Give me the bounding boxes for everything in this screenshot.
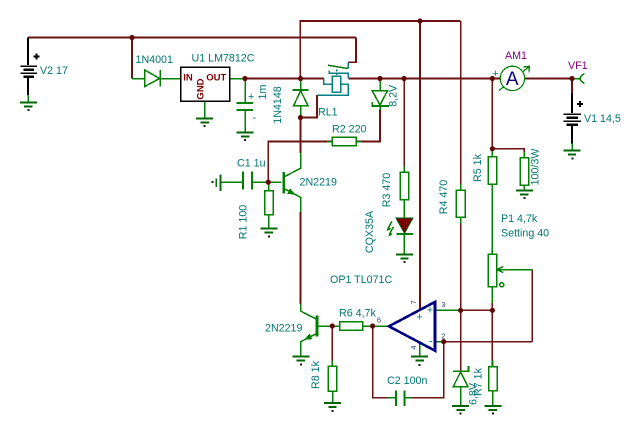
svg-text:R1 100: R1 100 — [238, 205, 250, 240]
svg-text:R7 1k: R7 1k — [473, 367, 485, 396]
svg-text:+: + — [416, 312, 422, 324]
svg-text:V2 17: V2 17 — [40, 65, 68, 77]
svg-text:CQX35A: CQX35A — [364, 210, 376, 253]
svg-text:3: 3 — [441, 300, 445, 309]
svg-text:Setting 40: Setting 40 — [501, 228, 549, 240]
svg-text:100/3W: 100/3W — [530, 148, 542, 186]
svg-text:6: 6 — [377, 316, 381, 325]
svg-text:RL1: RL1 — [318, 107, 338, 119]
svg-text:8,2V: 8,2V — [387, 84, 399, 107]
svg-text:R4 470: R4 470 — [438, 180, 450, 215]
svg-text:C1 1u: C1 1u — [237, 158, 266, 170]
svg-text:P1 4,7k: P1 4,7k — [501, 213, 538, 225]
svg-text:1N4148: 1N4148 — [272, 86, 284, 123]
svg-text:+: + — [427, 305, 433, 317]
svg-text:A: A — [506, 69, 519, 90]
svg-text:R8 1k: R8 1k — [310, 360, 322, 389]
svg-text:OP1 TL071C: OP1 TL071C — [330, 274, 392, 286]
svg-text:2: 2 — [441, 332, 445, 341]
svg-text:+: + — [248, 91, 254, 103]
svg-text:1m: 1m — [257, 84, 269, 99]
svg-text:IN: IN — [183, 73, 193, 84]
svg-text:+: + — [492, 68, 498, 80]
svg-text:U1 LM7812C: U1 LM7812C — [192, 53, 255, 65]
svg-text:V1 14,5: V1 14,5 — [584, 113, 621, 125]
svg-text:7: 7 — [409, 300, 418, 304]
svg-text:1N4001: 1N4001 — [136, 54, 173, 66]
svg-text:R3 470: R3 470 — [381, 173, 393, 208]
svg-text:R5 1k: R5 1k — [472, 153, 484, 182]
svg-text:-: - — [429, 336, 433, 348]
svg-text:-: - — [253, 112, 257, 124]
svg-text:2N2219: 2N2219 — [300, 177, 337, 189]
svg-text:4: 4 — [409, 345, 418, 349]
svg-text:GND: GND — [196, 78, 207, 99]
svg-text:VF1: VF1 — [568, 60, 588, 72]
svg-text:R2 220: R2 220 — [332, 124, 367, 136]
svg-text:OUT: OUT — [206, 73, 226, 84]
svg-text:C2 100n: C2 100n — [387, 375, 427, 387]
svg-text:R6 4,7k: R6 4,7k — [339, 308, 376, 320]
svg-text:AM1: AM1 — [505, 50, 527, 62]
svg-text:2N2219: 2N2219 — [265, 323, 302, 335]
